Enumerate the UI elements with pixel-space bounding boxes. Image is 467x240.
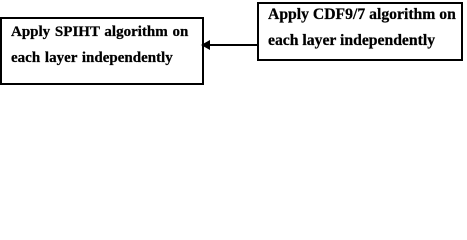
arrowhead pointing left at B1 [201, 40, 210, 50]
process box B2: Apply CDF9/7 [257, 2, 463, 61]
label of box B1 [11, 19, 188, 72]
label of box B2 [268, 2, 456, 55]
process box B1: Apply SPIHT [0, 17, 204, 85]
arrow line from B2 to B1 [208, 44, 258, 46]
